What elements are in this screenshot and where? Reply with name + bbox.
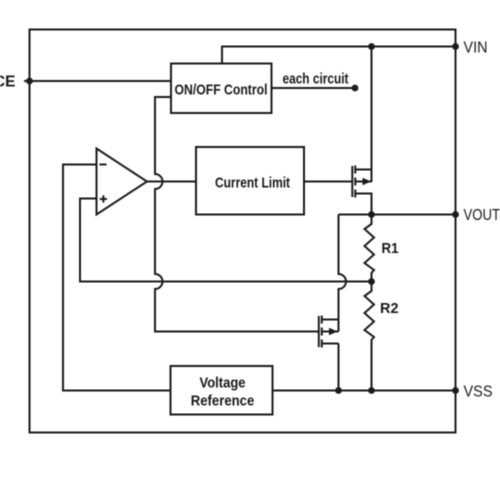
- junction dot VIN rail to Q1: [368, 43, 375, 50]
- wire VOUT down to Q2 drain (with hop): [339, 215, 347, 332]
- wire Current Limit to Q1 gate: [304, 181, 352, 183]
- junction dot VSS pin: [452, 387, 459, 394]
- wire non-inverting input feedback from R1/R2 node: [80, 199, 372, 282]
- wire VOUT rail: [339, 214, 456, 216]
- junction dot VIN pin: [452, 43, 459, 50]
- wire VIN to Q1 source (vertical): [371, 47, 373, 183]
- svg-text:R1: R1: [382, 240, 399, 257]
- wire CE input: [24, 80, 171, 82]
- wire op-amp output to Current Limit: [147, 181, 196, 183]
- svg-text:VSS: VSS: [464, 384, 493, 401]
- transistor Q1 PMOS pass: [352, 166, 371, 215]
- junction dot R1/R2 feedback node: [368, 278, 375, 285]
- svg-text:VIN: VIN: [464, 40, 488, 57]
- wire Q2 source to VSS rail: [338, 344, 340, 391]
- svg-text:VOUT: VOUT: [464, 207, 500, 224]
- svg-text:R2: R2: [380, 300, 399, 317]
- svg-text:Voltage: Voltage: [200, 375, 246, 392]
- junction dot CE pin: [26, 78, 33, 85]
- block Current Limit: [196, 147, 304, 215]
- block ON/OFF Control: [171, 64, 272, 114]
- svg-text:ON/OFF Control: ON/OFF Control: [175, 82, 268, 99]
- wire each-circuit feed: [272, 87, 356, 89]
- resistor R1: [365, 215, 375, 282]
- IC boundary border: [30, 30, 456, 433]
- junction dot Q2 source at VSS rail: [335, 387, 342, 394]
- junction dot VOUT node at Q1 drain / R1 top: [368, 211, 375, 218]
- wire inverting input to Voltage Reference: [63, 165, 171, 391]
- block Voltage Reference: [171, 366, 273, 415]
- wire ON/OFF Control output down to Q2 gate (with hops): [155, 97, 319, 332]
- wire VIN rail with stub to ON/OFF Control top: [222, 47, 456, 65]
- svg-text:CE: CE: [0, 74, 16, 91]
- transistor Q2 NMOS discharge: [319, 316, 339, 348]
- svg-text:each circuit: each circuit: [283, 71, 349, 88]
- wire VSS rail from Voltage Reference to pin: [273, 390, 456, 392]
- junction dot each-circuit terminal: [352, 85, 359, 92]
- svg-text:Reference: Reference: [191, 393, 255, 410]
- op-amp U1 error amplifier: [97, 149, 148, 215]
- junction dot VOUT pin: [452, 211, 459, 218]
- svg-text:Current Limit: Current Limit: [215, 175, 290, 192]
- junction dot R2 bottom at VSS rail: [368, 387, 375, 394]
- resistor R2: [365, 282, 375, 391]
